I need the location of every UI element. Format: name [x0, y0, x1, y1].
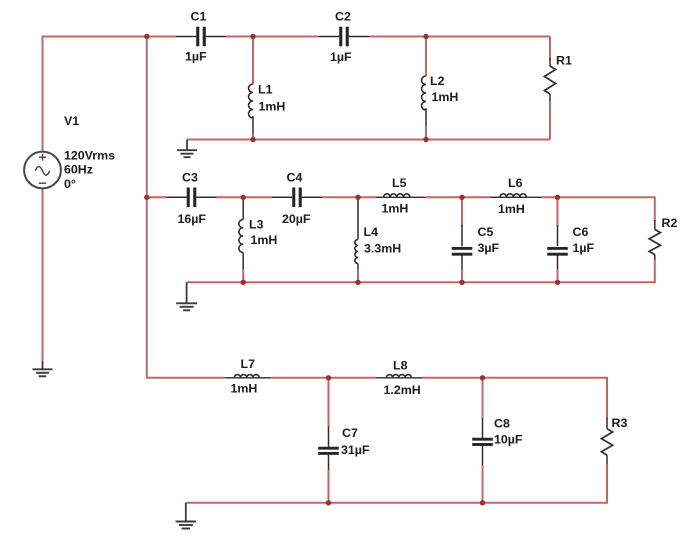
svg-text:C2: C2	[335, 10, 351, 24]
svg-text:L1: L1	[258, 83, 273, 97]
svg-text:1µF: 1µF	[573, 241, 595, 255]
svg-text:3µF: 3µF	[478, 241, 500, 255]
svg-text:3.3mH: 3.3mH	[364, 242, 401, 256]
svg-text:L7: L7	[241, 357, 256, 371]
svg-text:C6: C6	[573, 225, 589, 239]
svg-text:120Vrms: 120Vrms	[64, 149, 115, 163]
svg-text:1mH: 1mH	[259, 100, 286, 114]
svg-text:C7: C7	[342, 426, 358, 440]
svg-text:L4: L4	[364, 225, 379, 239]
svg-text:C8: C8	[494, 417, 510, 431]
svg-text:1mH: 1mH	[382, 202, 409, 216]
svg-text:1µF: 1µF	[185, 50, 207, 64]
svg-text:C5: C5	[478, 225, 494, 239]
svg-text:C4: C4	[287, 171, 303, 185]
svg-text:1mH: 1mH	[251, 233, 278, 247]
svg-text:1mH: 1mH	[432, 90, 459, 104]
svg-text:1µF: 1µF	[330, 50, 352, 64]
svg-text:20µF: 20µF	[282, 212, 311, 226]
svg-text:R1: R1	[556, 54, 572, 68]
svg-text:L3: L3	[249, 217, 264, 231]
svg-text:L6: L6	[508, 176, 523, 190]
svg-text:L2: L2	[430, 74, 445, 88]
svg-text:R2: R2	[662, 216, 678, 230]
svg-text:L8: L8	[393, 359, 408, 373]
svg-text:C1: C1	[191, 10, 207, 24]
svg-text:1mH: 1mH	[231, 382, 258, 396]
svg-text:31µF: 31µF	[341, 443, 370, 457]
svg-text:16µF: 16µF	[178, 212, 207, 226]
svg-text:1.2mH: 1.2mH	[384, 383, 421, 397]
svg-text:10µF: 10µF	[494, 433, 523, 447]
svg-text:0°: 0°	[64, 177, 76, 191]
svg-text:V1: V1	[64, 114, 79, 128]
svg-text:L5: L5	[392, 176, 407, 190]
svg-text:C3: C3	[182, 171, 198, 185]
svg-text:1mH: 1mH	[498, 202, 525, 216]
svg-text:R3: R3	[612, 416, 628, 430]
svg-text:60Hz: 60Hz	[64, 163, 93, 177]
